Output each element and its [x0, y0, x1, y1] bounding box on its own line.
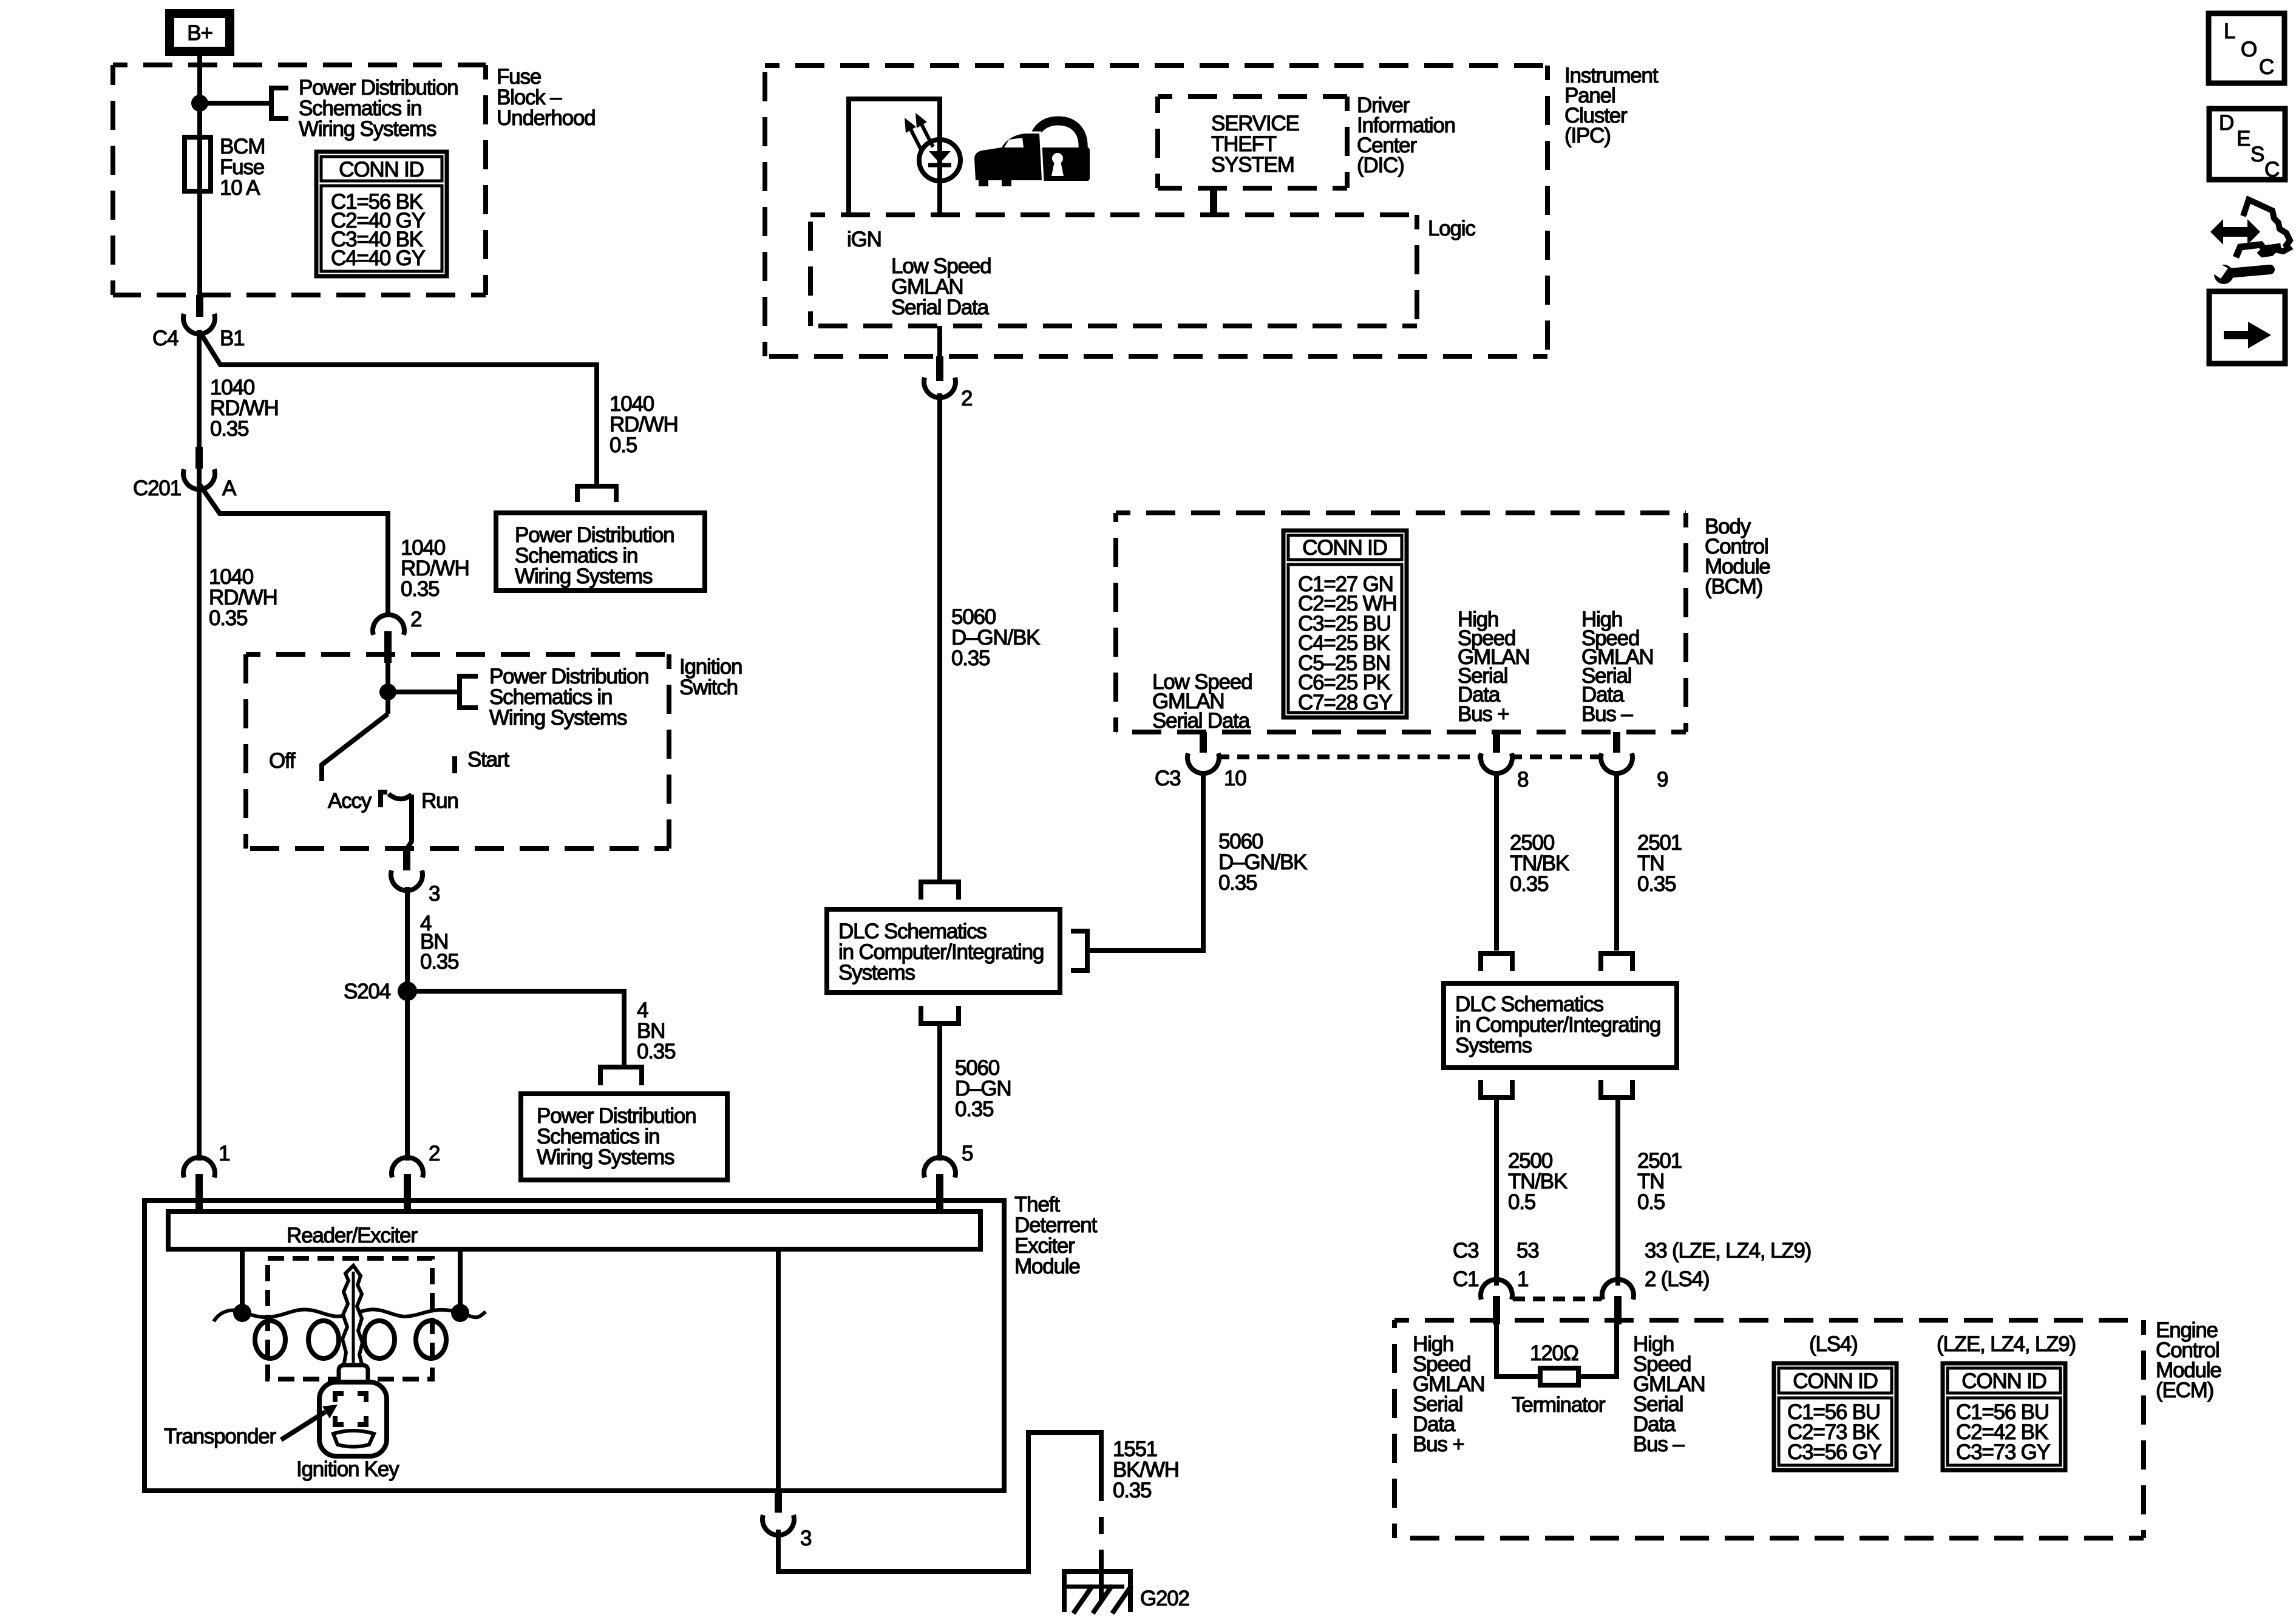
label Body Control Module (BCM) — [1705, 515, 1770, 598]
Engine Control Module dashed box — [1394, 1320, 2144, 1538]
label 2500 TN/BK 0.5 — [1508, 1149, 1567, 1214]
wire branch A to ignition switch — [199, 484, 388, 617]
stub BCM C3 pin 10 — [1200, 732, 1207, 753]
label 1040 RD/WH 0.5 — [610, 392, 678, 457]
svg-text:10 A: 10 A — [220, 176, 260, 200]
svg-text:0.35: 0.35 — [401, 577, 439, 601]
power distribution schematics box (upper) — [496, 513, 705, 591]
key head slot — [333, 1431, 374, 1447]
Accy-Run wiper arc — [389, 794, 412, 799]
Logic dashed box — [810, 215, 1417, 326]
B+ battery terminal — [165, 9, 234, 56]
svg-text:9: 9 — [1657, 768, 1668, 792]
label 5060 D-GN 0.35 — [955, 1056, 1011, 1121]
wire DLC1 to BCM C3 pin 10 — [1087, 771, 1203, 951]
svg-text:0.35: 0.35 — [210, 417, 248, 441]
ECM connector dotted line — [1513, 1297, 1601, 1301]
svg-text:33 (LZE, LZ4, LZ9): 33 (LZE, LZ4, LZ9) — [1645, 1239, 1811, 1263]
svg-text:S: S — [2250, 143, 2264, 166]
coil region dashed box — [268, 1258, 432, 1379]
svg-text:C4=40 GY: C4=40 GY — [331, 246, 426, 270]
connector C4 arc — [183, 314, 215, 334]
wire 5060 D-GN to module pin 5 — [937, 1026, 942, 1161]
wire 4 BN to S204 — [405, 887, 410, 983]
svg-text:5: 5 — [962, 1142, 973, 1165]
Reader/Exciter box — [168, 1212, 980, 1249]
label power distribution schematics — [299, 76, 458, 141]
junction node left coil — [233, 1304, 251, 1322]
connector arc ECM pin 1 — [1481, 1280, 1512, 1300]
adjust icon wrench — [2205, 257, 2270, 284]
svg-text:O: O — [2241, 38, 2257, 61]
Run wire down — [408, 795, 412, 851]
svg-text:Bus –: Bus – — [1581, 702, 1633, 726]
svg-text:Accy: Accy — [328, 789, 372, 813]
svg-text:D: D — [2219, 111, 2234, 135]
svg-text:Systems: Systems — [1455, 1034, 1532, 1057]
box feed bracket (lower power dist) — [600, 1067, 642, 1085]
DLC Schematics box 1 — [827, 909, 1060, 992]
label Engine Control Module (ECM) — [2156, 1318, 2221, 1402]
Ignition Switch dashed box — [246, 654, 669, 849]
LED emission arrow 2 — [915, 113, 933, 147]
label Driver Information Center (DIC) — [1357, 93, 1455, 177]
svg-text:0.35: 0.35 — [637, 1040, 675, 1063]
wire 2501 TN upper — [1614, 771, 1619, 951]
junction node right coil — [451, 1304, 469, 1322]
label Low Speed GMLAN Serial Data (IPC) — [891, 254, 991, 319]
label Ignition Switch — [679, 655, 742, 699]
svg-text:Wiring Systems: Wiring Systems — [515, 564, 653, 588]
stub BCM pin 8 — [1493, 732, 1500, 753]
label 5060 D-GN/BK 0.35 — [951, 605, 1040, 670]
svg-text:0.35: 0.35 — [955, 1097, 993, 1121]
svg-text:10: 10 — [1224, 767, 1246, 790]
DLC2 top bracket left — [1481, 954, 1512, 971]
LOC icon box — [2209, 13, 2284, 83]
exciter coil 2 — [308, 1321, 339, 1358]
label 2500 TN/BK 0.35 — [1510, 831, 1569, 896]
svg-text:Wiring Systems: Wiring Systems — [537, 1145, 674, 1169]
svg-text:0.5: 0.5 — [1637, 1190, 1665, 1214]
svg-text:Wiring Systems: Wiring Systems — [489, 706, 627, 730]
connector arc reader pin 2 — [392, 1158, 423, 1178]
connector C3 dotted line — [1217, 754, 1483, 759]
svg-text:Bus +: Bus + — [1458, 702, 1509, 726]
stub ECM pin 2 — [1614, 1296, 1622, 1324]
label 1040 RD/WH 0.35 (ignition branch) — [401, 536, 469, 601]
exciter coil 3 — [364, 1321, 395, 1358]
svg-text:3: 3 — [800, 1527, 811, 1550]
stub pin 1 — [195, 1174, 203, 1212]
svg-text:0.35: 0.35 — [420, 950, 458, 974]
label High Speed GMLAN Serial Data Bus + (ECM) — [1413, 1332, 1484, 1456]
svg-text:C: C — [2264, 158, 2280, 181]
label 2501 TN 0.35 — [1637, 831, 1682, 896]
label Fuse Block Underhood — [497, 65, 595, 130]
adjust icon hand outline — [2243, 200, 2290, 254]
DLC2 top bracket right — [1601, 954, 1632, 971]
svg-text:Module: Module — [1014, 1255, 1080, 1278]
svg-text:Off: Off — [269, 749, 296, 773]
svg-text:C4: C4 — [152, 327, 178, 350]
Instrument Panel Cluster dashed box — [765, 66, 1547, 356]
label High Speed GMLAN Serial Data Bus - (ECM) — [1633, 1332, 1705, 1456]
label 5060 D-GN/BK 0.35 (right) — [1218, 830, 1307, 895]
box feed bracket — [577, 486, 616, 502]
wire 2500 TN/BK lower — [1494, 1100, 1499, 1286]
terminator loop wires — [1496, 1324, 1540, 1377]
label Theft Deterrent Exciter Module — [1014, 1193, 1098, 1278]
svg-text:Start: Start — [467, 748, 509, 771]
svg-text:2: 2 — [410, 608, 421, 631]
svg-text:0.35: 0.35 — [951, 646, 990, 670]
svg-text:G202: G202 — [1140, 1587, 1189, 1610]
connector 2 arc (IPC) — [924, 378, 956, 398]
Driver Information Center dashed box — [1158, 97, 1347, 188]
svg-text:8: 8 — [1517, 768, 1528, 792]
wire into switch — [385, 663, 390, 714]
LED diode triangle — [929, 151, 951, 163]
stub BCM pin 9 — [1613, 732, 1620, 753]
switch wiper to Off — [322, 714, 388, 781]
connector 9 arc — [1601, 753, 1632, 773]
DLC Schematics box 2 — [1444, 983, 1677, 1068]
label 1040 RD/WH 0.35 (left main) — [209, 565, 277, 630]
CONN ID table (ECM LS4) — [1774, 1363, 1897, 1470]
stub pin 5 — [936, 1174, 943, 1212]
connector C3 arc (BCM) — [1187, 753, 1219, 773]
svg-text:120Ω: 120Ω — [1530, 1341, 1578, 1365]
label BCM Fuse 10 A — [220, 135, 265, 200]
label Instrument Panel Cluster (IPC) — [1564, 64, 1659, 147]
ground wire 1551 — [778, 1432, 1101, 1571]
svg-text:Ignition Key: Ignition Key — [296, 1457, 399, 1481]
wire S204 branch right — [407, 991, 624, 1065]
svg-text:C3: C3 — [1155, 767, 1180, 790]
svg-text:Bus +: Bus + — [1413, 1432, 1464, 1456]
coil drop wire right — [458, 1249, 463, 1311]
connector C4 pin B1 stub — [196, 295, 203, 317]
svg-text:2: 2 — [961, 387, 972, 410]
stub pin 3 — [775, 1491, 782, 1513]
120 ohm terminator resistor — [1540, 1368, 1578, 1385]
wire logic to connector 2 — [937, 326, 942, 358]
connector C201 pin A stub — [195, 447, 203, 469]
wire S204 down to reader pin 2 — [405, 991, 410, 1161]
svg-text:C3=73 GY: C3=73 GY — [1956, 1440, 2051, 1464]
svg-text:3: 3 — [429, 882, 440, 906]
svg-text:Switch: Switch — [679, 676, 738, 699]
DLC2 bottom bracket left — [1481, 1080, 1512, 1097]
svg-text:0.35: 0.35 — [209, 606, 247, 630]
svg-text:(LZE, LZ4, LZ9): (LZE, LZ4, LZ9) — [1937, 1332, 2076, 1356]
wire 2501 TN lower — [1615, 1100, 1620, 1286]
key shoulder — [339, 1365, 368, 1385]
ground G202 — [1062, 1571, 1133, 1613]
key head — [319, 1382, 387, 1456]
key blade groove — [352, 1272, 355, 1363]
svg-text:53: 53 — [1517, 1239, 1539, 1263]
wire junction to reference bracket — [200, 101, 271, 106]
svg-text:SYSTEM: SYSTEM — [1211, 153, 1294, 177]
svg-text:0.35: 0.35 — [1510, 872, 1548, 896]
wire B+ to fuse block — [197, 56, 202, 103]
CONN ID table (BCM) — [1283, 531, 1407, 717]
connector 3 stub (ignition) — [403, 849, 410, 870]
adjust icon sleeve — [2236, 245, 2281, 257]
stub IPC pin 2 — [936, 356, 943, 381]
coil drop wire left — [240, 1249, 245, 1311]
transponder pointer arrow — [281, 1412, 325, 1440]
svg-text:0.35: 0.35 — [1113, 1479, 1151, 1502]
forward arrow icon box — [2209, 291, 2285, 364]
dashed ground lead — [1099, 1501, 1104, 1551]
svg-text:Wiring Systems: Wiring Systems — [299, 117, 436, 141]
LED wire through — [937, 140, 942, 215]
Start contact tick — [452, 756, 457, 773]
svg-text:S204: S204 — [344, 980, 391, 1003]
wire branch B1 to power distribution box — [199, 331, 597, 484]
svg-text:CONN ID: CONN ID — [339, 158, 423, 181]
adjust icon double arrow — [2210, 219, 2260, 245]
label High Speed GMLAN Serial Data Bus - (BCM) — [1581, 608, 1653, 726]
connector 2 stub — [384, 631, 392, 663]
Accy contact — [381, 792, 387, 807]
transponder dashed square — [335, 1394, 366, 1425]
connector arc reader pin 1 — [183, 1158, 215, 1178]
svg-text:C7=28 GY: C7=28 GY — [1298, 691, 1393, 714]
Fuse Block - Underhood dashed box — [113, 65, 486, 295]
stub ECM pin 1 — [1493, 1296, 1500, 1324]
svg-text:CONN ID: CONN ID — [1961, 1369, 2046, 1393]
Theft Deterrent Exciter Module box — [144, 1201, 1004, 1491]
splice S204 — [398, 981, 417, 1001]
security padlock icon — [1027, 121, 1090, 181]
label 1551 BK/WH 0.35 — [1113, 1437, 1179, 1502]
CONN ID table (ECM LZE) — [1943, 1363, 2065, 1470]
DIC stub to logic — [1210, 188, 1217, 215]
DLC1 bottom bracket — [921, 1006, 959, 1023]
connector 8 arc — [1481, 753, 1512, 773]
svg-text:(DIC): (DIC) — [1357, 154, 1404, 177]
main ignition feed wire down left side — [197, 330, 202, 1161]
svg-text:E: E — [2237, 127, 2250, 151]
junction node in fuse block — [191, 95, 208, 112]
wire 5060 D-GN/BK down — [937, 393, 942, 880]
connector 3 arc (ignition) — [391, 870, 423, 890]
svg-text:Terminator: Terminator — [1512, 1393, 1606, 1417]
DLC1 right bracket — [1071, 931, 1087, 971]
label High Speed GMLAN Serial Data Bus + (BCM) — [1458, 608, 1529, 726]
label Low Speed GMLAN Serial Data (BCM) — [1152, 670, 1252, 733]
svg-text:C201: C201 — [133, 476, 181, 500]
svg-text:Underhood: Underhood — [497, 106, 595, 130]
label 2501 TN 0.5 — [1637, 1149, 1682, 1214]
svg-text:Serial Data: Serial Data — [1152, 709, 1251, 733]
ignition key blade — [342, 1266, 362, 1366]
svg-text:1: 1 — [219, 1142, 229, 1165]
svg-text:Serial Data: Serial Data — [891, 296, 990, 319]
svg-text:C3: C3 — [1453, 1239, 1478, 1263]
svg-text:(ECM): (ECM) — [2156, 1378, 2213, 1402]
security indicator loop wire — [849, 99, 940, 215]
DESC icon box — [2209, 109, 2285, 181]
security LED lamp — [919, 140, 960, 181]
reference bracket (switch power dist) — [460, 676, 478, 708]
wire 2500 TN/BK upper — [1494, 771, 1499, 951]
svg-text:iGN: iGN — [847, 228, 881, 251]
svg-text:C: C — [2259, 55, 2274, 79]
svg-text:CONN ID: CONN ID — [1302, 536, 1387, 560]
label 1040 RD/WH 0.35 — [210, 376, 279, 441]
svg-text:0.5: 0.5 — [610, 433, 637, 457]
antenna wavy wire — [214, 1309, 486, 1321]
wire to switch reference bracket — [388, 690, 460, 694]
svg-text:2: 2 — [429, 1142, 440, 1165]
svg-text:0.35: 0.35 — [1637, 872, 1676, 896]
connector 2 arc at ignition switch — [373, 615, 404, 635]
connector arc pin 3 — [763, 1515, 794, 1535]
junction node ignition — [379, 683, 396, 700]
fuse BCM Fuse 10 A — [185, 137, 211, 191]
svg-text:Transponder: Transponder — [164, 1425, 276, 1448]
power distribution schematics box (lower) — [521, 1094, 727, 1180]
label SERVICE THEFT SYSTEM — [1211, 112, 1299, 177]
svg-text:Run: Run — [421, 789, 458, 813]
label 4 BN 0.35 — [420, 912, 458, 974]
exciter coil 1 — [255, 1321, 285, 1358]
LED emission arrow 1 — [905, 118, 922, 152]
svg-text:C3=56 GY: C3=56 GY — [1787, 1440, 1882, 1464]
svg-text:Systems: Systems — [838, 961, 915, 985]
connector arc ECM pin 2 — [1602, 1280, 1634, 1300]
svg-text:C1: C1 — [1453, 1267, 1478, 1291]
LED cathode bar — [928, 163, 951, 168]
svg-text:2 (LS4): 2 (LS4) — [1645, 1267, 1709, 1291]
svg-text:B+: B+ — [187, 21, 212, 45]
svg-text:B1: B1 — [220, 327, 244, 350]
svg-text:Bus –: Bus – — [1633, 1432, 1685, 1456]
svg-text:0.35: 0.35 — [1218, 871, 1257, 895]
stub pin 2 — [404, 1174, 411, 1212]
box feed bracket DLC upper — [921, 882, 959, 900]
connector C201 arc — [183, 469, 215, 489]
security car icon — [974, 134, 1042, 186]
svg-text:A: A — [222, 476, 237, 500]
svg-text:CONN ID: CONN ID — [1793, 1369, 1877, 1393]
Body Control Module dashed box — [1116, 513, 1686, 732]
DLC2 bottom bracket right — [1601, 1080, 1632, 1097]
svg-text:(BCM): (BCM) — [1705, 575, 1762, 598]
svg-text:0.5: 0.5 — [1508, 1190, 1535, 1214]
svg-text:Reader/Exciter: Reader/Exciter — [287, 1224, 418, 1247]
CONN ID table (fuse block) — [316, 152, 447, 276]
label power distribution schematics (switch) — [489, 665, 648, 730]
svg-text:Logic: Logic — [1428, 217, 1475, 240]
exciter coil 4 — [416, 1321, 446, 1358]
internal wire pin 3 — [776, 1249, 781, 1492]
svg-text:L: L — [2224, 19, 2235, 43]
svg-text:(LS4): (LS4) — [1809, 1332, 1858, 1356]
wire through fuse — [197, 103, 202, 297]
svg-text:(IPC): (IPC) — [1564, 124, 1611, 147]
off-page reference bracket (power distribution) — [271, 88, 288, 118]
connector arc pin 5 — [924, 1158, 956, 1178]
svg-text:1: 1 — [1517, 1267, 1528, 1291]
label 4 BN 0.35 (branch) — [637, 998, 675, 1063]
